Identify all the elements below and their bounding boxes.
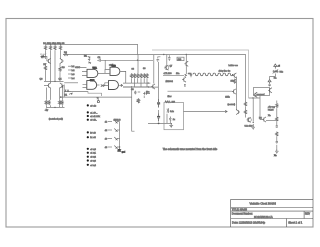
wire right stack top [276,101,278,104]
wire gate c in [83,85,87,88]
svg-text:b0 d3: b0 d3 [90,132,96,134]
arrow control [225,110,227,112]
wire right column [236,77,238,111]
resistor R4 [59,43,66,50]
svg-text:a0 clk: a0 clk [90,105,97,107]
wire control out [184,111,227,113]
transistor Q9 [233,73,237,78]
net label N9 [87,156,97,159]
capacitor C14 [169,117,175,121]
resistor bank R17 [143,73,145,78]
net label N1 [87,104,97,107]
svg-text:c1 w1: c1 w1 [90,153,96,155]
wire VCC top rail [45,44,138,54]
wire to ladder box [61,96,132,98]
svg-text:d3: d3 [105,139,108,141]
svg-text:Q3: Q3 [40,78,44,80]
wire pot down [270,74,276,80]
node J6 [148,82,149,83]
wire q5 collector [153,55,155,84]
diode D2 [105,120,120,124]
wire q3 q4 drop [44,86,63,100]
capacitor C2 [156,57,160,62]
ground G3 [169,123,173,127]
node J13 [163,54,164,55]
electrolytic cap C11 [157,99,160,107]
resistor R22 [244,110,246,115]
svg-text:Document Number:: Document Number: [232,212,253,215]
resistor R3 [53,43,60,50]
capacitor C1 [97,57,153,62]
wire box internals [159,110,171,123]
wire collector drops [46,50,61,83]
node J1 [50,44,51,45]
junction node J10 [148,86,149,87]
svg-text:TITLE: NASH: TITLE: NASH [232,209,247,212]
wire c2 column [158,62,160,99]
capacitor C13 [167,108,174,113]
transistor Q3 [47,83,51,88]
diode D3 [105,129,120,133]
net label N8 [87,152,97,155]
wire stack low [276,137,278,141]
wire k1 [64,85,88,98]
svg-text:33: 33 [132,69,135,71]
resistor R11 [58,100,60,105]
resistor R7 [43,64,47,71]
transistor Q8 [182,77,186,82]
transistor Q7 [165,65,173,70]
wire y87 [123,86,158,88]
svg-text:-5v: -5v [45,109,49,112]
svg-text:R5 4k7: R5 4k7 [40,54,47,56]
wire q6 emitter [185,59,187,75]
nand gate U1A [87,66,102,77]
ground G1 [251,124,255,129]
svg-text:a2 d1 10k: a2 d1 10k [90,116,101,118]
resistor bank R18 [146,73,148,78]
node J11 [158,123,160,125]
titleblock sheet divider [286,219,288,228]
wire bottom rail mid [148,122,172,124]
resistor R24 [276,117,278,122]
wire rail r2 [123,86,150,88]
wire stack tail [276,145,278,149]
resistor bank R14 [133,73,135,78]
svg-text:X1: X1 [65,94,68,96]
svg-text:c3 w3: c3 w3 [90,161,96,163]
svg-text:in3: in3 [72,74,76,76]
diode D4 [105,137,120,141]
wire rail r1 [123,82,150,84]
svg-text:Xa: Xa [274,155,277,157]
inverter bubble [121,84,123,86]
wire bank bottoms to rails [132,79,148,87]
svg-text:10u: 10u [146,92,149,94]
net label N7 [87,148,97,151]
wire module down [249,96,263,120]
wire bank top feed [137,55,139,74]
svg-text:R4 1k: R4 1k [59,43,66,45]
node J2 [54,44,55,45]
capacitor C3 [168,55,170,61]
svg-text:C1: C1 [98,57,102,59]
buffer arrow mid [185,74,187,76]
svg-text:Date: 11/26/2013 20:05:34p: Date: 11/26/2013 20:05:34p [232,220,266,224]
net label N2 [87,111,98,114]
capacitor C8 [276,141,278,144]
resistor R25 [276,132,278,137]
wire q2 out [64,82,78,84]
svg-text:1u: 1u [173,119,175,121]
titleblock rev divider [303,211,305,218]
node J3 [60,44,61,45]
svg-text:in4: in4 [72,78,76,80]
titleblock row line 3 [231,218,313,220]
symbol cluster K1 [64,90,72,97]
transistor Q2 [60,58,64,63]
resistor R8 [59,67,66,72]
net label N3 [87,115,101,118]
svg-text:The schematic was mounted from: The schematic was mounted from the front… [163,147,218,151]
svg-text:+5v reg: +5v reg [268,105,276,108]
svg-text:R8: R8 [62,67,66,69]
resistor R9 [45,100,47,105]
resistor bank R13 [130,73,132,78]
wire secondary faint rail [152,50,249,98]
svg-text:10n: 10n [176,73,180,75]
resistor R6 [64,52,69,55]
net label N5 [87,131,97,134]
resistor R21 [244,102,246,107]
resistor R27 [165,101,176,104]
resistor R10 [48,100,50,105]
svg-text:SC2A#3122-1A: SC2A#3122-1A [254,215,273,219]
svg-text:Variable Clock NASH: Variable Clock NASH [250,202,276,206]
node J15 [137,60,138,61]
svg-text:Sheet 1 of 1: Sheet 1 of 1 [288,220,303,224]
wire q15 drop [266,120,277,122]
net label N11 [87,164,97,167]
power arrow +5V [274,64,281,69]
svg-text:delay line 8x: delay line 8x [219,71,232,73]
svg-text:b1 d4: b1 d4 [90,137,96,139]
capacitor C9 [131,89,140,94]
connector pad P1 [97,101,99,103]
svg-text:33: 33 [143,68,146,70]
svg-text:a3 d2 .: a3 d2 . [90,120,97,122]
titleblock outline [231,199,313,227]
resistor R1 [43,43,50,50]
wire r19 feed [185,55,187,59]
svg-text:osc mod: osc mod [257,94,266,96]
resistor R19 box [177,57,184,61]
net label N10 [87,159,97,162]
svg-text:d1: d1 [105,122,108,124]
node J8 [252,97,253,98]
wire q7 feed [166,55,168,66]
svg-text:4.7k 100: 4.7k 100 [164,73,173,75]
capacitor C6 [268,83,270,86]
wire mid row [163,74,184,76]
svg-text:(control): (control) [228,103,236,106]
transistor Q5 [150,84,155,89]
resistor R12 [61,100,63,105]
svg-text:+5: +5 [278,66,281,68]
svg-text:2N3904: 2N3904 [166,81,174,83]
wire bottom rail [46,105,65,107]
capacitor C10 [143,92,150,95]
svg-text:U1A: U1A [93,66,98,69]
svg-text:(matched pair): (matched pair) [49,117,63,120]
label input stub b [68,70,75,72]
diode D1 [84,56,91,61]
thermistor RT1 [88,62,91,64]
resistor R20 [231,79,236,84]
wire r22 join [245,107,247,118]
label input stub d [68,78,75,80]
buffer arrows [101,85,105,87]
svg-text:U1B: U1B [112,65,117,67]
wire c to d [103,83,109,86]
svg-text:d2: d2 [105,130,108,132]
svg-text:REV: REV [305,212,310,215]
svg-text:d4: d4 [105,147,108,149]
wire emitter bus [46,64,61,82]
capacitor C7 [276,125,278,128]
title block [231,199,313,227]
module box U2 [254,88,270,97]
ground G4 [118,148,125,153]
wire gate A in [75,68,87,76]
wire under gate c [88,91,102,100]
nand gate U1B [110,65,126,83]
transistor Q12 [253,92,257,97]
nand gate U1D [109,81,123,90]
resistor bank R15 [137,73,139,78]
transistor Q10 [232,89,236,94]
node J5 [54,107,55,108]
ground G2 [274,149,279,157]
wire xtal drop [104,60,106,69]
svg-text:c0 w0: c0 w0 [90,149,96,151]
svg-text:filter: filter [168,95,172,98]
svg-text:gnd: gnd [122,152,125,154]
node J12 [119,146,120,147]
titleblock row line 1 [231,207,313,209]
transistor Q4 [60,83,64,88]
svg-text:10k: 10k [231,81,234,83]
svg-text:50k: 50k [280,72,284,74]
resistor R23 [276,103,278,108]
svg-text:in2: in2 [72,70,76,72]
transistor Q14 [247,117,251,122]
label input stub a [68,66,75,68]
wire mid vert [143,96,145,99]
inductor chain L1 [193,73,233,76]
wire main horizontal rail [63,55,246,102]
resistor R5 [40,54,47,57]
transistor Q15 [259,117,266,122]
transistor Q1 [47,58,51,63]
node J7 [148,86,149,87]
nand gate U1C [87,80,100,90]
node J9 [253,122,254,123]
svg-text:c4 w4: c4 w4 [90,165,96,167]
transistor Q11 [268,88,272,93]
capacitor C4 [190,73,192,77]
svg-text:78L05: 78L05 [268,109,275,111]
electrolytic cap C12 [157,114,160,122]
svg-text:a1 d0 ..: a1 d0 .. [90,112,98,114]
svg-text:D1: D1 [84,56,88,58]
transistor Q6 [184,61,188,66]
svg-text:U1C: U1C [90,80,95,82]
wire tail rail [44,80,64,82]
capacitor C5 [184,85,186,87]
wire base Q1 [46,57,47,62]
wire stack mid [276,108,278,125]
wire left vert [132,86,135,131]
resistor R26 [136,98,140,103]
svg-text:Q7: Q7 [170,65,174,67]
wire ladder bus [119,122,121,149]
svg-text:ladder osc: ladder osc [229,65,238,67]
titleblock row line 2 [231,210,313,212]
wire long feedback [168,90,233,92]
resistor bank R16 [140,73,142,78]
subcircuit box B1 [164,103,184,130]
wire a to b [102,70,111,74]
resistor R2 [49,43,56,50]
net label N6 [87,136,97,139]
transistor Q13 [236,109,240,114]
node J4 [54,81,55,82]
power arrow node [268,80,271,84]
node J14 [186,54,187,55]
diode D5 [105,146,120,150]
wire j8 down [252,98,254,122]
svg-text:1N4148: 1N4148 [114,119,122,121]
potentiometer VR1 [273,70,284,74]
label input stub c [68,74,75,76]
svg-text:0.1u: 0.1u [170,111,174,113]
svg-text:Q4: Q4 [59,78,63,80]
svg-text:c2 w2: c2 w2 [90,157,96,159]
svg-text:Ra: Ra [274,77,278,79]
svg-text:Xa: Xa [268,115,271,117]
net label N4 [87,119,98,122]
